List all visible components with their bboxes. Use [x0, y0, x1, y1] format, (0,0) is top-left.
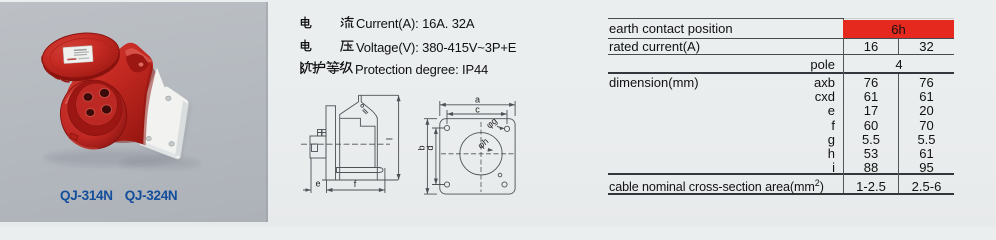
flange plate — [326, 106, 336, 180]
dim a — [440, 101, 515, 116]
crosshair — [456, 122, 514, 192]
svg-text:f: f — [354, 179, 357, 189]
model numbers QJ-314N QJ-324N — [60, 188, 177, 203]
dim e arrows (outside) — [303, 189, 334, 191]
middle spec text block — [0, 0, 996, 1]
terminal screws — [318, 130, 322, 137]
line 2: dian ya Voltage(V) — [298, 39, 312, 53]
inner recessed disc — [71, 79, 122, 131]
latch circle — [361, 104, 364, 107]
latch diagonal — [363, 109, 369, 115]
left grey photo panel — [0, 2, 268, 222]
bottom key nub — [70, 133, 79, 141]
face outer ellipse — [53, 73, 134, 156]
corner holes — [444, 125, 449, 130]
dim d — [432, 128, 444, 185]
label — [63, 46, 93, 64]
table — [0, 0, 996, 1]
mounting flange (white, tilted) — [140, 67, 191, 161]
dim f line — [327, 189, 385, 191]
row: pole — [735, 57, 835, 72]
ground shadow — [45, 150, 175, 166]
dim f: extensions — [327, 168, 385, 193]
inner ridge — [48, 35, 114, 77]
svg-text:e: e — [315, 179, 320, 189]
product photo: red CEE industrial socket — [25, 15, 240, 190]
svg-text:c: c — [475, 105, 480, 115]
technical drawing — [296, 82, 526, 202]
dim c — [447, 110, 507, 124]
centerline (side) — [301, 143, 390, 145]
big circle — [460, 133, 502, 175]
line 3: fang hu deng ji Protection degree — [299, 61, 313, 75]
hanzi glyph defs — [0, 0, 5, 5]
body right edge shade — [142, 57, 156, 146]
lid top — [39, 28, 122, 82]
latch stub — [359, 95, 362, 102]
lid (open cap) — [39, 28, 123, 86]
bottom skirt — [337, 168, 384, 173]
panel divider — [266, 2, 268, 222]
face rim highlight — [66, 84, 87, 103]
dim l: extension + line — [361, 95, 398, 180]
bottom base line — [322, 179, 398, 181]
horizontal rules — [608, 18, 844, 19]
plate — [440, 119, 515, 194]
svg-text:φg: φg — [484, 116, 499, 131]
row: earth contact position — [609, 21, 733, 36]
svg-text:l: l — [385, 138, 395, 140]
lid underside rim — [40, 31, 123, 86]
row: rated current — [609, 39, 700, 54]
dim e: extension — [310, 158, 312, 193]
pin holes (dark) with rims — [82, 88, 112, 117]
row: cable — [609, 178, 824, 194]
line 1: dian liu Current(A) — [298, 16, 312, 30]
svg-text:a: a — [475, 95, 480, 105]
arrow f right — [379, 188, 385, 192]
scallop grips on left edge — [42, 53, 70, 85]
socket body (red) — [65, 43, 153, 145]
hinge knuckle — [126, 54, 149, 73]
face rim bottom highlight — [69, 137, 97, 149]
arrow l bottom — [397, 174, 401, 180]
body lower shadow — [81, 133, 143, 145]
cable gland rear — [310, 136, 326, 158]
arrow f left — [327, 188, 333, 192]
red 6h cell — [843, 20, 954, 38]
svg-text:d: d — [425, 145, 435, 150]
body top highlight — [125, 48, 153, 63]
lid inner step — [340, 118, 375, 168]
dimension block — [609, 75, 699, 90]
arrow l top — [397, 95, 401, 101]
body outline — [340, 102, 378, 180]
face ring — [62, 75, 128, 141]
vertical rules — [843, 19, 844, 193]
dim b — [424, 119, 437, 194]
